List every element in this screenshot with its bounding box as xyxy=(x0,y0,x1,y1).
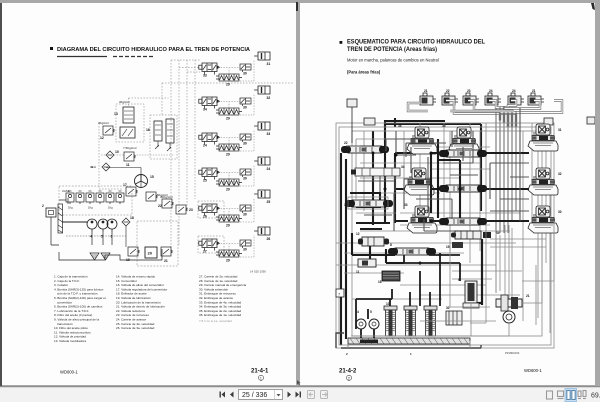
case port spool 2 xyxy=(76,191,84,204)
speed spool valves between clusters xyxy=(341,141,487,225)
pumps 4 5 6 xyxy=(87,219,117,239)
svg-text:32: 32 xyxy=(558,172,562,176)
case port spool 6 xyxy=(116,191,124,204)
small port boxes row under solenoids xyxy=(347,99,595,143)
solenoid valve 30 xyxy=(240,240,251,248)
svg-text:13: 13 xyxy=(344,203,348,207)
solenoid valve 30 xyxy=(240,134,251,142)
oil cooler 18 xyxy=(378,271,400,284)
quick return valve 8 spool xyxy=(388,248,436,255)
dark divider above toolbar xyxy=(0,386,600,388)
mouse cursor artifact xyxy=(296,380,302,387)
svg-text:7.8.1 no ls 1a. velocidad: 7.8.1 no ls 1a. velocidad xyxy=(199,319,232,323)
svg-text:30: 30 xyxy=(243,248,247,252)
lubrication group box 19 20 21 xyxy=(126,221,178,266)
solenoid connector 1 xyxy=(420,93,436,105)
row 4 xyxy=(199,157,271,192)
strainer box right of filters xyxy=(446,306,462,325)
solenoid valve 30 xyxy=(240,169,251,177)
svg-text:69.: 69. xyxy=(591,393,600,400)
oil filter 3 xyxy=(424,306,437,336)
gray pipe pair right descending xyxy=(496,225,512,305)
case port spool 5 xyxy=(106,191,114,204)
svg-text:26: 26 xyxy=(203,215,207,219)
converter regulator valve 21 xyxy=(496,294,530,323)
modulating valve 13 spool xyxy=(345,200,393,207)
row 6 xyxy=(198,227,270,263)
first-page button xyxy=(220,392,226,398)
pump 4 (SAR3-125) xyxy=(87,219,97,232)
thin gray mesh frame xyxy=(336,123,554,348)
case port spool 4 xyxy=(96,191,104,204)
next-view icon (disabled) xyxy=(321,391,328,399)
solenoid connector 2 xyxy=(442,93,458,105)
next-page button xyxy=(288,392,292,398)
solenoid connector 4 xyxy=(485,93,501,105)
svg-text:2: 2 xyxy=(346,352,348,356)
oil filter diamond 18 xyxy=(122,216,134,247)
svg-text:4: 4 xyxy=(357,310,359,314)
clutch 33 xyxy=(254,122,270,130)
tank ticks xyxy=(346,352,412,356)
row 5 xyxy=(198,190,270,228)
row 1: forward group xyxy=(199,52,271,87)
main relief valve 9 xyxy=(458,278,479,308)
emergency manual spool 29 xyxy=(216,179,242,186)
svg-text:1Kg: 1Kg xyxy=(68,206,73,210)
svg-text:21-4-2: 21-4-2 xyxy=(339,369,357,375)
viewer left dark edge xyxy=(0,3,2,386)
viewer bottom toolbar xyxy=(0,387,600,402)
svg-text:11: 11 xyxy=(126,163,130,167)
legend column 1 xyxy=(54,275,106,344)
svg-text:1Kg: 1Kg xyxy=(88,206,93,210)
clutch 35 xyxy=(254,190,270,198)
svg-text:29: 29 xyxy=(226,188,230,192)
clutch cluster right row1 (clutch 31) xyxy=(528,124,562,151)
shift spool valve 34 xyxy=(199,97,220,109)
svg-text:P#1801063: P#1801063 xyxy=(505,351,520,355)
svg-text:31: 31 xyxy=(267,62,271,66)
clutch cluster right row2 (clutch 32) xyxy=(528,168,562,195)
clutch cluster middle row2 (clutch 34) xyxy=(401,165,434,195)
svg-text:30: 30 xyxy=(243,142,247,146)
node box 7 left edge xyxy=(336,289,344,297)
svg-text:WD600-1: WD600-1 xyxy=(60,370,78,375)
top solenoid valve row xyxy=(408,89,562,233)
clutch cluster middle row1 (clutch 36) xyxy=(398,124,437,154)
svg-text:24: 24 xyxy=(512,89,516,93)
svg-text:ESQUEMATICO PARA CIRCUITO HIDR: ESQUEMATICO PARA CIRCUITO HIDRAULICO DEL xyxy=(347,40,485,46)
solenoid valve 30 xyxy=(240,98,251,106)
title underline remnant xyxy=(57,56,153,58)
svg-text:29: 29 xyxy=(226,259,230,263)
svg-text:30: 30 xyxy=(446,306,450,310)
bold drop line from spool 34 to sump xyxy=(474,239,482,305)
connection dots xyxy=(372,152,462,265)
svg-text:20: 20 xyxy=(148,251,153,256)
svg-text:DIAGRAMA DEL CIRCUITO HIDRAULI: DIAGRAMA DEL CIRCUITO HIDRAULICO PARA EL… xyxy=(57,47,251,53)
svg-text:23: 23 xyxy=(467,89,471,93)
svg-text:2: 2 xyxy=(348,377,350,381)
thin pipes bottom right xyxy=(351,221,554,336)
bold pipes bottom xyxy=(356,253,460,338)
svg-text:25: 25 xyxy=(203,179,207,183)
clutch 32 xyxy=(254,86,270,94)
2nd speed spool 27 xyxy=(439,218,487,225)
reducing valve 22 / back valve 23 xyxy=(158,195,193,214)
svg-text:12: 12 xyxy=(100,136,104,140)
solenoid valve 30 xyxy=(240,64,251,72)
svg-text:21: 21 xyxy=(532,89,536,93)
svg-text:31: 31 xyxy=(558,128,562,132)
svg-text:33: 33 xyxy=(404,203,408,207)
emergency manual spool 29 xyxy=(216,250,242,257)
legend column 2 xyxy=(116,275,167,331)
left scanned page xyxy=(2,3,296,385)
left main supply lines xyxy=(341,118,481,345)
svg-text:34: 34 xyxy=(203,108,207,112)
shift spool valve 27 xyxy=(199,239,220,251)
TDF box 2 xyxy=(42,204,56,217)
svg-text:21-4-1: 21-4-1 xyxy=(251,369,269,375)
row 3 xyxy=(199,122,271,157)
title bullet xyxy=(50,47,53,50)
sump hatched bar xyxy=(348,338,470,344)
wire harness from solenoids (tube style) xyxy=(408,101,562,128)
case port spool 1 xyxy=(66,191,74,204)
svg-text:24: 24 xyxy=(267,167,271,171)
converter relief 16 assembly xyxy=(146,115,177,159)
dashed trunk lines xyxy=(99,60,294,250)
svg-text:29: 29 xyxy=(226,83,230,87)
clutch 36 xyxy=(254,227,270,235)
priority valve 12 xyxy=(98,121,115,140)
strainer column 3 xyxy=(58,204,87,233)
oil filters row xyxy=(384,302,437,336)
connecting pipe lines bottom xyxy=(51,168,162,261)
node 49.1 xyxy=(90,163,110,171)
legend column 3 xyxy=(199,275,246,324)
emergency manual spool 29 xyxy=(216,215,242,222)
bold S-bend pipe xyxy=(350,193,390,229)
svg-text:18: 18 xyxy=(130,216,134,220)
svg-text:7.5Kg/cm²: 7.5Kg/cm² xyxy=(123,146,137,150)
pump 6 (SAR2-100) xyxy=(107,219,117,232)
solenoid connector 6 xyxy=(528,93,544,105)
svg-text:49.1: 49.1 xyxy=(90,165,96,169)
svg-text:15: 15 xyxy=(150,175,154,179)
svg-text:1Kg: 1Kg xyxy=(108,206,113,210)
svg-text:8: 8 xyxy=(390,243,392,247)
pilot valve cluster 23 xyxy=(356,232,389,246)
emergency manual spool 29 xyxy=(216,108,242,115)
reducing valve 22 xyxy=(341,146,389,153)
svg-text:36: 36 xyxy=(398,124,402,128)
title bullet xyxy=(340,41,343,44)
clutch cluster right row3 (clutch 30) xyxy=(528,206,562,233)
quick return valve 14 xyxy=(388,243,436,255)
modulating valve 13 assembly xyxy=(114,98,169,142)
svg-text:24: 24 xyxy=(203,144,207,148)
svg-text:30: 30 xyxy=(558,210,562,214)
svg-text:34: 34 xyxy=(496,231,500,235)
two-page layout icon (selected) xyxy=(565,389,577,402)
svg-text:26. Carrete de 3a. velocidad: 26. Carrete de 3a. velocidad xyxy=(116,326,155,330)
pump 5 (SAR2-100) xyxy=(98,219,108,232)
transmission case dashed box with spool row xyxy=(59,186,132,215)
modulating valve 13 assembly bottom left xyxy=(344,197,393,209)
svg-text:14 S20 1090: 14 S20 1090 xyxy=(250,270,266,274)
pilot reducing valve 11 xyxy=(356,259,376,274)
lubrication valve 19 group mid xyxy=(146,192,168,201)
svg-text:(Para áreas frías): (Para áreas frías) xyxy=(347,70,381,75)
svg-text:33: 33 xyxy=(267,132,271,136)
svg-text:17: 17 xyxy=(123,183,127,187)
shift spool valve 33 xyxy=(199,63,220,75)
lubrication relief spool 34 xyxy=(446,231,500,249)
clutch cluster middle row3 (clutch 33) xyxy=(404,203,437,233)
scan artifact top right corner xyxy=(591,3,595,10)
svg-text:10: 10 xyxy=(115,150,119,154)
solenoid valve 30 xyxy=(240,205,251,213)
svg-text:5: 5 xyxy=(370,310,372,314)
svg-text:22: 22 xyxy=(446,89,450,93)
svg-text:21: 21 xyxy=(526,294,530,298)
svg-text:18: 18 xyxy=(378,280,382,284)
solenoid connector 3 xyxy=(463,93,479,105)
svg-text:WD600-1: WD600-1 xyxy=(524,368,542,373)
case port spool 3 xyxy=(86,191,94,204)
svg-text:26: 26 xyxy=(267,237,271,241)
emergency manual spool 29 xyxy=(216,144,242,151)
svg-text:1: 1 xyxy=(410,352,412,356)
right scanned page xyxy=(300,3,595,385)
pilot filter 10 and pilot reducing valve 11 xyxy=(101,146,174,167)
svg-text:33: 33 xyxy=(203,74,207,78)
harness band shadow xyxy=(450,110,514,112)
svg-text:30Kg/cm²: 30Kg/cm² xyxy=(160,195,173,199)
emergency manual spool 29 xyxy=(216,74,242,81)
svg-text:30: 30 xyxy=(243,106,247,110)
4th speed spool 25 xyxy=(439,150,487,157)
gear pumps bottom xyxy=(356,310,379,329)
svg-text:2: 2 xyxy=(42,204,44,208)
regulator 17 xyxy=(123,183,138,196)
scan artifact in page gap xyxy=(296,2,298,11)
six shift valve rows xyxy=(198,52,270,263)
sump strainers xyxy=(90,253,110,260)
shift spool valve 24 xyxy=(199,133,220,145)
continuous layout icon xyxy=(558,391,564,399)
oil filter 2 xyxy=(404,306,417,336)
svg-text:25: 25 xyxy=(267,200,271,204)
svg-text:22: 22 xyxy=(158,204,162,208)
svg-text:24: 24 xyxy=(489,89,493,93)
page number box 25/336 xyxy=(239,390,283,400)
svg-text:11: 11 xyxy=(356,270,360,274)
intermediate spool left column xyxy=(351,168,400,176)
svg-text:21: 21 xyxy=(164,259,168,263)
svg-text:30: 30 xyxy=(243,72,247,76)
svg-text:30: 30 xyxy=(243,213,247,217)
two-page continuous icon xyxy=(578,391,586,399)
prev-page button xyxy=(230,392,234,398)
svg-text:13. Válvula moduladora: 13. Válvula moduladora xyxy=(54,339,86,343)
single page layout icon xyxy=(547,391,553,399)
bold feeds around cluster 23 xyxy=(352,233,404,263)
svg-text:25 / 336: 25 / 336 xyxy=(242,392,267,399)
torque converter 15 xyxy=(135,175,154,188)
row 2 xyxy=(199,86,271,121)
svg-text:35: 35 xyxy=(442,124,446,128)
solenoid connector 5 xyxy=(508,93,524,105)
svg-text:29: 29 xyxy=(226,117,230,121)
svg-text:TREN DE POTENCIA (Areas frias): TREN DE POTENCIA (Areas frias) xyxy=(347,47,437,53)
clutch 31 xyxy=(254,52,270,60)
svg-text:16: 16 xyxy=(146,128,150,132)
svg-text:21: 21 xyxy=(424,89,428,93)
svg-text:27: 27 xyxy=(203,250,207,254)
3rd speed spool 26 xyxy=(439,185,487,192)
prev-view icon (disabled) xyxy=(308,391,315,399)
svg-text:36. Embrague de 1a. velocidad: 36. Embrague de 1a. velocidad xyxy=(199,313,241,317)
oil filter 1 xyxy=(384,306,397,336)
last-page button xyxy=(296,392,302,398)
svg-text:34: 34 xyxy=(401,165,405,169)
svg-text:13: 13 xyxy=(114,112,118,116)
svg-text:Motor en marcha, palancas de c: Motor en marcha, palancas de cambios en … xyxy=(347,58,439,63)
svg-text:23: 23 xyxy=(189,208,193,212)
clutch 34 xyxy=(254,157,270,165)
shift spool valve 26 xyxy=(199,204,220,216)
svg-text:3Kg/cm²: 3Kg/cm² xyxy=(98,121,109,125)
svg-text:12: 12 xyxy=(356,232,360,236)
svg-text:1: 1 xyxy=(260,377,262,381)
bottom case outline xyxy=(336,333,481,348)
svg-text:29: 29 xyxy=(226,224,230,228)
svg-text:22: 22 xyxy=(344,141,348,145)
svg-text:29: 29 xyxy=(226,153,230,157)
svg-text:19: 19 xyxy=(446,245,450,249)
svg-text:30: 30 xyxy=(243,177,247,181)
shift spool valve 25 xyxy=(199,168,220,180)
bold distribution lines center xyxy=(395,139,529,221)
clutch cluster middle row1b (clutch 35) xyxy=(442,124,479,154)
svg-text:32: 32 xyxy=(267,96,271,100)
